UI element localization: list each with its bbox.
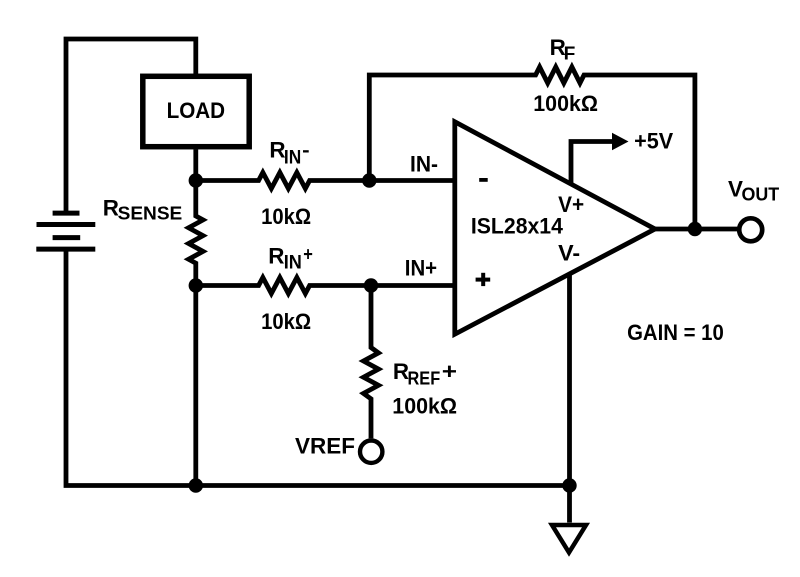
svg-text:SENSE: SENSE bbox=[118, 203, 183, 224]
label RREF+ bbox=[393, 359, 457, 388]
minus sign op-amp inverting input bbox=[479, 178, 488, 182]
svg-text:100kΩ: 100kΩ bbox=[533, 91, 598, 116]
svg-text:10kΩ: 10kΩ bbox=[261, 204, 311, 229]
label RIN+ bbox=[268, 243, 313, 273]
svg-text:+5V: +5V bbox=[634, 129, 673, 154]
resistor RIN- row wire bbox=[196, 173, 453, 189]
node IN+ bbox=[364, 278, 378, 292]
wire LOAD bottom stub bbox=[193, 149, 198, 180]
svg-text:REF: REF bbox=[408, 367, 441, 388]
node ground rail bbox=[562, 478, 576, 492]
wire ground stub bbox=[567, 486, 572, 523]
svg-text:R: R bbox=[268, 243, 284, 268]
svg-text:+: + bbox=[442, 359, 457, 384]
battery V1 plates bbox=[36, 213, 95, 249]
wire battery bottom rail bbox=[66, 249, 570, 485]
svg-text:100kΩ: 100kΩ bbox=[392, 394, 457, 419]
svg-text:10kΩ: 10kΩ bbox=[261, 309, 311, 334]
op-amp U1 triangle bbox=[455, 122, 655, 334]
svg-text:V+: V+ bbox=[558, 192, 584, 217]
resistor RSENSE column wire bbox=[189, 181, 203, 486]
svg-text:IN: IN bbox=[284, 253, 302, 274]
plus sign op-amp non-inverting input bbox=[476, 273, 491, 286]
resistor RREF+ column wire bbox=[364, 286, 379, 439]
label RIN- bbox=[269, 138, 309, 169]
resistor RF feedback wire bbox=[369, 67, 695, 229]
node junction RIN+ left bbox=[189, 278, 203, 292]
svg-text:IN+: IN+ bbox=[405, 255, 437, 280]
node junction RIN- left bbox=[189, 173, 203, 187]
resistor RIN+ row wire bbox=[196, 278, 453, 294]
svg-text:OUT: OUT bbox=[742, 183, 780, 204]
wire +5V supply stub bbox=[571, 142, 613, 185]
wire output bbox=[654, 227, 738, 232]
svg-text:LOAD: LOAD bbox=[167, 98, 226, 123]
arrowhead +5V bbox=[612, 133, 629, 151]
ground symbol bbox=[552, 525, 586, 553]
wire battery top to LOAD top bbox=[66, 39, 196, 213]
svg-text:IN: IN bbox=[284, 147, 301, 168]
svg-text:R: R bbox=[103, 196, 119, 221]
label RF bbox=[550, 35, 576, 64]
node IN- bbox=[362, 173, 376, 187]
label RSENSE bbox=[103, 196, 183, 224]
node junction bottom rail left bbox=[189, 478, 203, 492]
svg-text:IN-: IN- bbox=[410, 151, 438, 176]
svg-text:V-: V- bbox=[558, 241, 580, 266]
wire V- to ground rail bbox=[567, 274, 572, 485]
svg-text:VREF: VREF bbox=[295, 434, 355, 459]
LOAD box bbox=[143, 76, 249, 146]
svg-text:+: + bbox=[303, 245, 313, 266]
terminal VREF circle bbox=[360, 441, 382, 463]
svg-text:GAIN = 10: GAIN = 10 bbox=[627, 320, 724, 345]
label VOUT bbox=[728, 176, 780, 204]
node output bbox=[688, 222, 702, 236]
terminal VOUT circle bbox=[739, 218, 762, 241]
svg-text:-: - bbox=[302, 141, 310, 162]
svg-text:ISL28x14: ISL28x14 bbox=[471, 214, 564, 239]
svg-text:F: F bbox=[564, 43, 576, 64]
